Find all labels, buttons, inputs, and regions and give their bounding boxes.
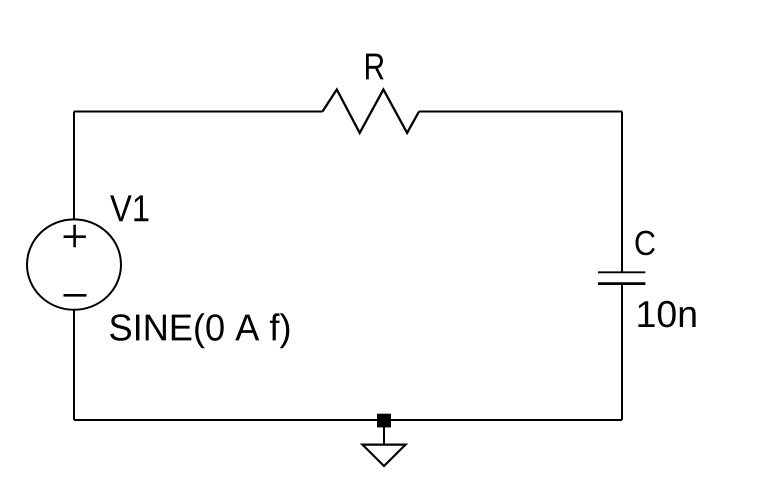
ground (363, 427, 406, 466)
node junction (ground net) (377, 414, 391, 428)
wire right upper segment (621, 112, 623, 273)
capacitor C (598, 272, 645, 283)
label R (366, 54, 384, 80)
label SINE(0 A f) (110, 313, 289, 348)
wire right lower segment (621, 284, 623, 420)
wire left upper segment (73, 112, 75, 220)
label 10n (638, 301, 695, 328)
voltage source V1 (27, 219, 121, 309)
wire left lower segment (73, 311, 75, 421)
wire top-left segment (74, 111, 323, 113)
resistor R (323, 90, 420, 133)
label C (636, 231, 655, 256)
wire bottom segment (74, 419, 622, 421)
label V1 (110, 195, 148, 221)
wire top-right segment (419, 111, 622, 113)
